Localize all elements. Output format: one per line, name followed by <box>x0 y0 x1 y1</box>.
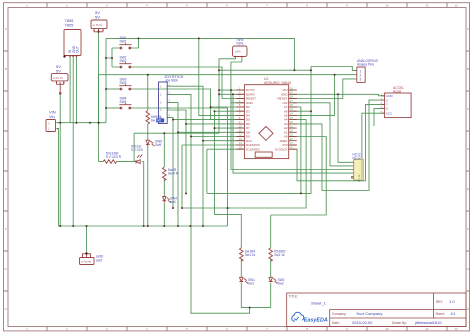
hc12 module <box>352 153 364 183</box>
wire gnd hc12 drop <box>338 94 354 162</box>
wire d4 stub <box>199 38 245 115</box>
wire sw4 left stub <box>106 107 120 109</box>
wire joy p1 <box>167 86 203 226</box>
svg-text:EasyEDA: EasyEDA <box>304 317 328 323</box>
wire stub d8 <box>178 131 244 133</box>
wire pull to H133 <box>147 124 149 226</box>
svg-text:Company:: Company: <box>332 312 347 316</box>
svg-text:sw4: sw4 <box>170 200 176 204</box>
svg-text:Gnd: Gnd <box>96 259 102 263</box>
resistor SW6R1 joystick pullup <box>146 111 164 124</box>
wire vin pin1 to bottom bus <box>57 129 228 227</box>
svg-text:Vin: Vin <box>49 114 55 119</box>
gnd symbol <box>80 252 104 264</box>
led 5VLED label <box>131 145 144 153</box>
wire a6 stub <box>293 110 311 112</box>
wire gnd drop <box>86 226 88 253</box>
svg-text:xx Px Px: xx Px Px <box>93 23 104 27</box>
wire d11 vertical <box>182 145 244 208</box>
resistor SW4R <box>163 167 179 180</box>
switch SW2 <box>119 56 131 68</box>
regulator 7805 <box>63 18 81 58</box>
svg-text:5V: 5V <box>95 15 100 20</box>
svg-text:H: H <box>5 307 7 311</box>
wire analogpins pin1 <box>311 67 357 71</box>
wire txrx tx stub <box>219 89 244 91</box>
svg-text:HC-12: HC-12 <box>357 174 361 182</box>
svg-text:xx Px Px: xx Px Px <box>53 76 64 80</box>
svg-text:5 V LED R: 5 V LED R <box>106 155 122 159</box>
wire txrx rx stub <box>219 93 244 95</box>
switch SW3 <box>119 78 131 90</box>
led SW1 bottom <box>239 277 255 285</box>
wire chain2 upper <box>270 215 272 248</box>
wire txrx right pin route <box>231 57 245 103</box>
led SW5 <box>146 140 162 148</box>
resistor RSSW2 <box>269 248 286 262</box>
wire stub d10 <box>203 140 244 142</box>
svg-text:TxRx: TxRx <box>236 42 244 46</box>
wire a3 accel z <box>293 100 385 190</box>
wire joy p3 <box>167 103 178 226</box>
wire VIN row bus <box>57 122 107 124</box>
svg-text:B: B <box>467 67 469 71</box>
easyeda logo <box>292 312 328 323</box>
svg-text:Drawn By:: Drawn By: <box>392 321 407 325</box>
wire d12 vertical <box>207 149 245 193</box>
svg-text:F: F <box>5 227 7 231</box>
connector 5V top <box>91 10 107 33</box>
diode 5VLED <box>136 154 142 163</box>
wire left switch bus <box>105 38 107 122</box>
wire stub d5 <box>173 119 244 121</box>
svg-text:A: A <box>5 27 7 31</box>
wire stub d9 <box>191 136 244 138</box>
accel module <box>381 86 412 118</box>
svg-text:10: 10 <box>385 4 389 8</box>
wire 7805 pin IN down <box>69 56 71 123</box>
wire bottom hook <box>190 308 249 314</box>
svg-text:12: 12 <box>454 327 458 331</box>
wire accel x stub <box>374 108 385 126</box>
wire hc12 txd <box>233 94 354 173</box>
wire sw4r column <box>163 133 165 226</box>
wire H2 net <box>207 67 311 194</box>
svg-text:Date:: Date: <box>332 321 340 325</box>
svg-text:5 V LED: 5 V LED <box>131 148 144 152</box>
analog pins connector <box>357 59 378 83</box>
svg-text:D12/MISO: D12/MISO <box>246 147 261 151</box>
svg-text:Sw1 1k: Sw1 1k <box>245 253 256 257</box>
wire a0 to chain2 <box>271 137 327 216</box>
svg-text:VCC: VCC <box>386 111 393 115</box>
arduino nano U2 <box>236 77 297 159</box>
svg-text:5V: 5V <box>56 69 61 74</box>
svg-text:xxRx: xxRx <box>235 50 241 54</box>
wire 5v hc12 <box>293 103 354 166</box>
svg-text:B: B <box>5 67 7 71</box>
svg-text:H: H <box>467 307 469 311</box>
svg-text:TITLE:: TITLE: <box>289 295 299 299</box>
wire a4 elbow <box>182 120 306 208</box>
svg-text:Your Company: Your Company <box>356 311 382 316</box>
svg-text:A: A <box>467 27 469 31</box>
svg-text:12: 12 <box>454 4 458 8</box>
wire 7805 pin GND down <box>72 56 74 226</box>
wire 5V top connector down <box>98 32 100 123</box>
connector VIN <box>46 110 58 132</box>
switch SW4 <box>119 97 131 109</box>
svg-text:E: E <box>467 187 469 191</box>
txrx module <box>233 38 248 57</box>
wire accel vcc hc12 <box>352 113 385 178</box>
wire joy p2 <box>167 94 191 313</box>
svg-text:11: 11 <box>425 327 428 331</box>
wire 5V net top H1 <box>106 38 294 70</box>
wire 5V left branch <box>59 94 61 226</box>
wire a7 drop <box>293 107 301 193</box>
wire stub d6 <box>186 123 244 125</box>
wire analogpins pin3 reset <box>293 79 357 99</box>
wire 7805 pin OUT down <box>75 56 77 123</box>
svg-text:Analog Pins: Analog Pins <box>357 63 374 67</box>
svg-text:F: F <box>467 227 469 231</box>
connector 5V left <box>51 64 68 94</box>
svg-text:Sw2 1k: Sw2 1k <box>274 253 285 257</box>
svg-text:Sw5: Sw5 <box>155 143 161 147</box>
svg-text:Sheet_1: Sheet_1 <box>311 301 327 306</box>
wire H133 row <box>134 132 219 134</box>
svg-text:X: X <box>386 107 388 111</box>
svg-text:SW1: SW1 <box>120 40 127 44</box>
wire sw4 right <box>131 108 228 226</box>
svg-text:E: E <box>5 187 7 191</box>
led SW4 bottom <box>162 197 177 205</box>
svg-text:OUT: OUT <box>76 46 80 53</box>
svg-text:Sheet:: Sheet: <box>436 312 445 316</box>
resistor 5VLEDR <box>103 152 122 164</box>
wire chain2 lower <box>270 259 272 307</box>
wire H133 left drop <box>133 133 135 161</box>
svg-text:Sw1: Sw1 <box>248 282 254 286</box>
switch SW1 <box>119 36 131 49</box>
svg-text:3: 3 <box>360 78 362 82</box>
svg-text:7805: 7805 <box>65 23 75 28</box>
led SW2 bottom <box>269 277 285 285</box>
wire joy p4 <box>167 110 186 193</box>
wire hc12 rxd <box>231 90 354 169</box>
title block <box>287 293 466 327</box>
wire joystick pull column <box>147 75 149 111</box>
svg-text:1/1: 1/1 <box>450 311 456 316</box>
svg-text:jithinsanal1610: jithinsanal1610 <box>414 320 442 325</box>
wire d3 chain1 <box>215 111 245 248</box>
svg-text:A0: A0 <box>157 119 161 123</box>
svg-text:11: 11 <box>425 4 428 8</box>
wire sw3 right <box>131 89 244 120</box>
svg-text:REV: REV <box>436 300 443 304</box>
svg-text:2019-02-02: 2019-02-02 <box>352 320 373 325</box>
wire sw2 right <box>131 67 244 99</box>
svg-text:D13/SCK: D13/SCK <box>275 147 288 151</box>
svg-text:Sw 4 R: Sw 4 R <box>168 172 179 176</box>
wire left led column <box>98 75 100 162</box>
wire txrx left pin route <box>219 57 235 134</box>
wire chain1 lower <box>241 259 270 307</box>
wire led chain drop <box>143 162 145 226</box>
wire d7 stub <box>215 127 245 129</box>
svg-text:10: 10 <box>385 327 389 331</box>
svg-text:1.0: 1.0 <box>449 299 455 304</box>
wire led chain row <box>99 161 144 163</box>
wire sw3 stub d2 <box>211 106 245 108</box>
svg-text:Sw2: Sw2 <box>278 282 284 286</box>
wire a5 route <box>293 75 335 116</box>
svg-text:Sw: Sw <box>151 119 156 123</box>
joystick connector <box>159 74 184 124</box>
wire gnd right <box>293 94 385 96</box>
wire sw1 sw2 pair left <box>106 48 120 67</box>
wire sw3 left stub <box>106 88 120 90</box>
resistor Sw1R4 <box>240 248 256 262</box>
wire sw1 right up <box>131 38 139 48</box>
wire joy p5 <box>167 117 173 208</box>
wire analog net H3 <box>99 74 357 76</box>
wire d13 accel y <box>293 104 385 180</box>
svg-text:xx-hq-ad: xx-hq-ad <box>81 260 92 264</box>
